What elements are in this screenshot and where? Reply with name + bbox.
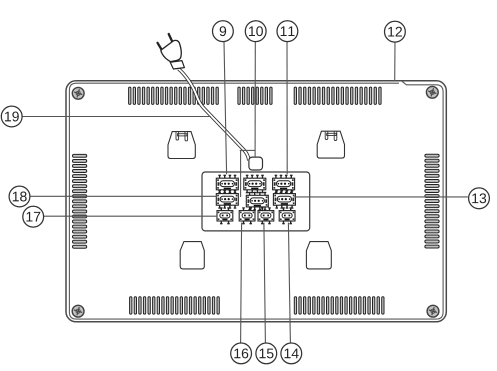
leader line 18 [30,195,216,197]
leader line 19 [22,116,211,118]
leader line 13 [294,196,468,198]
panel outer outline [66,81,446,322]
screw bottom-left [72,305,84,317]
power plug prong upper [169,34,173,42]
connector row1 middle [244,175,266,194]
callout circle 12 [385,21,406,42]
top vent group right [294,87,381,104]
leader line 17 [44,215,218,217]
panel inner outline [69,81,443,319]
callout circle 10 [245,21,266,42]
right side vent stack [425,154,439,248]
leader line 12 [394,42,396,81]
bottom vent group right [294,297,384,314]
callout circle 19 [1,106,22,127]
power connector box (10) [249,157,263,170]
callout circle 16 [231,343,252,364]
power plug prong lower [158,43,163,51]
connector row1 right (11) [273,175,295,194]
small connector 1 (17) [217,207,233,224]
leader line 11 [286,42,288,175]
power cord cable core [179,69,249,161]
small connector 2 (16) [239,207,255,224]
power cord cable outline [179,69,249,161]
callout circle 13 [469,188,490,209]
left side vent stack [73,154,87,248]
power plug neck [170,61,184,69]
callout circle 17 [23,206,44,227]
top vent group left [129,87,219,104]
terminal block area rectangle [202,172,310,231]
callout circle 15 [256,343,277,364]
connector row1 left (9) [216,175,238,194]
connector row2 left (18) [216,190,238,209]
top mounting bracket right [317,131,344,158]
screw top-left [72,87,84,99]
connector row2 middle [246,192,268,211]
bottom mounting bracket left [180,242,204,269]
leader line 14 [288,223,290,344]
screw bottom-right [427,305,439,317]
leader line 10 [254,42,256,157]
leader line 9 [224,42,227,175]
callout circle 11 [277,21,298,42]
top mounting bracket left [168,132,195,159]
small connector 4 (14) [279,207,295,224]
screw top-right [426,86,438,98]
callout circle 9 [213,21,234,42]
leader line 16 [241,223,242,344]
leader drop to middle row2 connector [240,150,242,197]
leader line 15 [264,223,266,344]
top vent group middle [238,87,272,104]
small connector 3 (15) [258,207,274,224]
callout circle 14 [281,343,302,364]
callout circle 18 [9,186,30,207]
connector row2 right (13) [273,190,295,209]
bottom mounting bracket right [306,242,331,269]
power plug body [161,40,181,61]
bottom vent group left [130,297,220,314]
leader jog from cable to line 10 [240,149,255,151]
